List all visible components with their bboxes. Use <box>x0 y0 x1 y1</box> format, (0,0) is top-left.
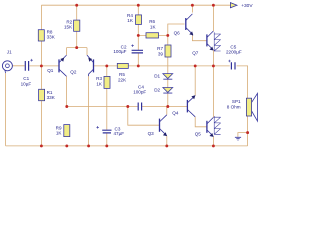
svg-text:Q3: Q3 <box>148 131 155 136</box>
svg-text:Q6: Q6 <box>174 31 181 36</box>
svg-text:100pF: 100pF <box>133 90 146 95</box>
svg-text:Q5: Q5 <box>195 132 202 137</box>
svg-text:D2: D2 <box>154 87 160 92</box>
svg-text:15K: 15K <box>64 25 73 30</box>
svg-text:R5: R5 <box>119 72 125 77</box>
svg-text:1K: 1K <box>150 24 157 29</box>
svg-text:Q4: Q4 <box>172 110 179 115</box>
svg-text:22K: 22K <box>118 78 127 83</box>
svg-text:1K: 1K <box>56 131 63 136</box>
svg-text:R3: R3 <box>96 76 102 81</box>
svg-text:33K: 33K <box>47 35 56 40</box>
svg-text:R7: R7 <box>157 46 163 51</box>
svg-text:39: 39 <box>158 51 164 56</box>
svg-text:R9: R9 <box>56 125 62 130</box>
svg-text:Q1: Q1 <box>47 68 54 73</box>
svg-text:1K: 1K <box>96 81 103 86</box>
svg-text:8 Ohm: 8 Ohm <box>227 104 241 109</box>
svg-text:10µF: 10µF <box>21 82 32 87</box>
svg-text:1K: 1K <box>127 18 134 23</box>
svg-text:Q2: Q2 <box>70 69 77 74</box>
svg-text:R4: R4 <box>127 13 133 18</box>
svg-text:+30V: +30V <box>241 3 253 9</box>
svg-text:R6: R6 <box>149 19 155 24</box>
svg-text:33K: 33K <box>47 95 56 100</box>
svg-text:J1: J1 <box>7 49 12 54</box>
svg-text:D1: D1 <box>154 73 160 78</box>
svg-text:Q7: Q7 <box>192 50 199 55</box>
svg-text:100µF: 100µF <box>113 49 126 54</box>
svg-text:C1: C1 <box>23 76 29 81</box>
svg-text:47µF: 47µF <box>114 131 125 136</box>
svg-text:R2: R2 <box>66 19 72 24</box>
svg-text:SP1: SP1 <box>232 99 241 104</box>
svg-text:2200µF: 2200µF <box>226 49 242 54</box>
